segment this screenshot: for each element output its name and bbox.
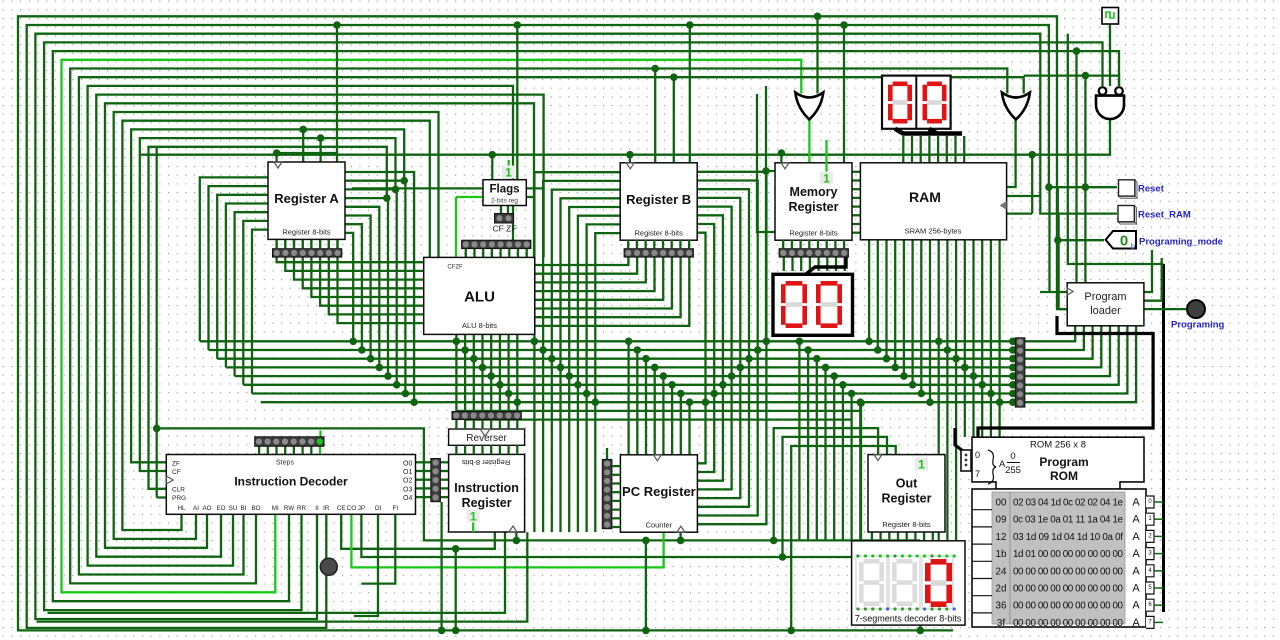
svg-text:Out: Out xyxy=(896,477,918,491)
wire PCstrip-PC 2 xyxy=(612,482,621,484)
svg-text:Counter: Counter xyxy=(646,520,673,529)
svg-text:255: 255 xyxy=(1005,465,1021,476)
ALU box xyxy=(424,257,535,334)
wire FlagsStrip-ALU 2 xyxy=(482,249,484,258)
wire reverser-IR 2 xyxy=(473,445,475,454)
wire loader top a xyxy=(1075,51,1077,283)
wire Out top feed4 xyxy=(791,446,896,630)
bus band 5 xyxy=(243,384,1013,386)
svg-text:00 00 00 00 00 00 00 00 00: 00 00 00 00 00 00 00 00 00 xyxy=(1013,618,1124,629)
wire ALU out 6 xyxy=(507,334,509,394)
bus band 3 xyxy=(226,366,1013,368)
junction regA top a xyxy=(299,126,307,134)
RAM out arrow xyxy=(1000,201,1007,210)
wire RegA left 4 xyxy=(235,212,268,376)
wire Flags out1 xyxy=(526,187,543,189)
wire RAM top 6 xyxy=(954,136,956,163)
wire loader-LED xyxy=(1144,308,1188,310)
wire Out top feed3 xyxy=(783,437,888,557)
wire ALU out 1 xyxy=(464,334,466,350)
wire v1085 xyxy=(1084,76,1086,283)
PC register xyxy=(620,455,697,532)
AND gate U3 inverted inputs xyxy=(1096,87,1124,119)
wire loader in2 xyxy=(1059,308,1068,310)
junction PC clk xyxy=(677,537,685,545)
wire RAM down 7 xyxy=(929,240,931,402)
7-seg display top pair xyxy=(882,76,951,129)
wire RegB left 1 xyxy=(543,181,620,532)
svg-text:O3: O3 xyxy=(403,486,412,493)
junction RegA band 7 xyxy=(349,338,357,346)
wire RegA left 3 xyxy=(226,204,268,368)
wire reg-strip stub xyxy=(275,240,277,249)
wire reg-strip stub xyxy=(644,240,646,249)
OR gate U2 xyxy=(1002,93,1030,120)
wire RAM top 3 xyxy=(928,136,930,163)
svg-text:CF ZF: CF ZF xyxy=(492,224,516,234)
junction dec band 4 xyxy=(830,372,838,380)
junction IRstrip 7 xyxy=(514,398,522,406)
wire PCstrip-PC 3 xyxy=(612,491,621,493)
wire RegA left 5 xyxy=(243,221,268,385)
wire reverser-IR 7 xyxy=(516,445,518,454)
svg-text:A: A xyxy=(1132,531,1140,543)
svg-text:ALU: ALU xyxy=(464,289,495,306)
wire MemReg-disp 6 xyxy=(835,257,837,271)
wire MemReg-disp 1 xyxy=(791,257,793,271)
svg-text:00: 00 xyxy=(996,498,1007,509)
svg-text:A: A xyxy=(1132,600,1140,612)
wire v861 down xyxy=(860,403,862,541)
wire reg-strip stub xyxy=(808,240,810,249)
junction RAM band 13 xyxy=(978,381,986,389)
junction RegA band 1 xyxy=(402,390,410,398)
wire MemReg clk xyxy=(780,153,782,163)
wire RAM down 10 xyxy=(955,240,957,541)
junction dec band 3 xyxy=(822,364,830,372)
junction clk tap x844 xyxy=(840,21,848,29)
wire Out-decoder 5 xyxy=(914,531,916,541)
junction dec band 1 xyxy=(804,346,812,354)
svg-text:1d 01 00 00 00 00 00 00 00: 1d 01 00 00 00 00 00 00 00 xyxy=(1013,549,1124,560)
svg-text:A: A xyxy=(1132,497,1140,509)
wire ID O1 stub xyxy=(416,470,431,472)
wire IRstrip down xyxy=(440,502,442,630)
reverser box xyxy=(449,429,525,445)
connector strip above ALU xyxy=(462,240,531,248)
wire ID O0 to IR xyxy=(440,461,448,463)
wire strip-reverser 4 xyxy=(490,420,492,430)
wire FlagsStrip-ALU 6 xyxy=(517,249,519,258)
svg-text:ROM: ROM xyxy=(1050,469,1078,483)
junction PCr band 3 xyxy=(737,364,745,372)
wire Out-decoder 7 xyxy=(932,531,934,541)
junction RegB band 2 xyxy=(548,355,556,363)
bus band 9 xyxy=(465,418,852,420)
wire Programing_mode net xyxy=(1058,187,1104,240)
wire RAM top 4 xyxy=(937,136,939,163)
svg-text:A: A xyxy=(1132,565,1140,577)
wire reg-strip stub xyxy=(319,240,321,249)
junction RegB band 3 xyxy=(557,364,565,372)
junction dec band 2 xyxy=(813,355,821,363)
svg-text:O1: O1 xyxy=(403,469,412,476)
wire RAM right2 xyxy=(1007,212,1032,214)
wire ID O3 stub xyxy=(416,487,431,489)
svg-text:03 1d 09 1d 04 1d 10 0a 0f: 03 1d 09 1d 04 1d 10 0a 0f xyxy=(1013,532,1123,543)
junction PC band 4 xyxy=(660,372,668,380)
svg-text:09: 09 xyxy=(996,515,1007,526)
junction Out feed3 tap xyxy=(779,553,787,561)
junction clk tap x517 xyxy=(514,21,522,29)
bus ring wire 8 xyxy=(88,86,513,566)
wire Flags probe stub xyxy=(508,160,510,166)
wire IR probe stub xyxy=(472,523,474,533)
junction bottom a xyxy=(642,627,650,635)
wire strip-reverser 7 xyxy=(516,420,518,430)
decoder pin dots xyxy=(856,554,955,610)
wire RAM right1 xyxy=(1007,195,1040,197)
wire reverser-IR 6 xyxy=(507,445,509,454)
bus ring wire 0 xyxy=(18,16,1067,630)
svg-text:Program: Program xyxy=(1039,455,1088,469)
wire ALU out 4 xyxy=(490,334,492,376)
wire RegB-ALU 2 xyxy=(535,257,646,283)
bus band 6 xyxy=(252,392,1013,394)
wire PC clk stub xyxy=(679,532,681,540)
wire RegA-ALU 0 xyxy=(277,240,424,262)
junction dec band 7 xyxy=(857,398,865,406)
wire RegA clk stub xyxy=(277,153,337,162)
wire JP net xyxy=(361,514,920,557)
wire RegB left 2 xyxy=(552,190,620,532)
wire strip-reverser 6 xyxy=(507,420,509,430)
junction ROMstrip 1 xyxy=(1009,346,1017,354)
junction CE 456 xyxy=(452,545,460,553)
wire RegB-ALU 7 xyxy=(535,257,689,326)
bus band 0 xyxy=(200,340,1014,342)
junction regA top b xyxy=(317,134,325,142)
bus band 8 xyxy=(456,410,861,412)
wire strip-reverser 3 xyxy=(481,420,483,430)
wire FlagsStrip-ALU 4 xyxy=(499,249,501,258)
svg-text:RAM: RAM xyxy=(909,189,941,205)
wire v1058 xyxy=(1057,214,1059,310)
svg-text:7-segments decoder 8-bits: 7-segments decoder 8-bits xyxy=(855,614,962,624)
junction PC band 0 xyxy=(625,338,633,346)
wire ALU out 3 xyxy=(481,334,483,367)
wire loader out up2 xyxy=(1144,258,1162,301)
wire reg-strip stub xyxy=(328,240,330,249)
junction v861 xyxy=(857,399,865,407)
wire PCstrip-PC 4 xyxy=(612,500,621,502)
wire ID O2 to IR xyxy=(440,479,448,481)
program ROM header xyxy=(972,437,1144,489)
wire reg-strip stub xyxy=(817,240,819,249)
wire RegA right 3 xyxy=(345,198,389,376)
wire MemReg-RAM 1 xyxy=(853,179,861,181)
wire reverser-IR 4 xyxy=(490,445,492,454)
wire RAM down 2 xyxy=(885,240,887,359)
wire RegA right 1 xyxy=(345,181,406,394)
svg-text:Instruction: Instruction xyxy=(454,481,519,495)
wire reg-strip stub xyxy=(688,240,690,249)
wire RegA left 6 xyxy=(252,230,268,394)
svg-text:0: 0 xyxy=(975,450,980,460)
wire IR deep net xyxy=(48,532,506,613)
junction progmode tap xyxy=(1054,236,1062,244)
wire MemReg left in xyxy=(766,86,775,171)
junction ROMstrip 0 xyxy=(1009,338,1017,346)
wire band-decoder 5 xyxy=(842,385,844,541)
svg-text:PRG: PRG xyxy=(172,495,186,502)
junction PC band 2 xyxy=(642,355,650,363)
program loader box xyxy=(1067,283,1144,326)
wire ALU out 0 xyxy=(455,334,457,341)
wire RAM down 1 xyxy=(877,240,879,350)
junction IRstrip 0 xyxy=(453,338,461,346)
junction bottom b xyxy=(438,627,446,635)
bus ring wire 14 xyxy=(140,138,396,471)
junction dec band 6 xyxy=(848,390,856,398)
black bus loader-ROM xyxy=(978,316,1153,437)
wire clock bus y155 xyxy=(141,119,1110,154)
svg-text:1: 1 xyxy=(505,166,512,180)
wire MemReg-disp 0 xyxy=(783,257,785,271)
wire ID O4 to IR xyxy=(440,496,448,498)
junction MemReg clk xyxy=(778,149,786,157)
junction RegA clk tap xyxy=(333,21,341,29)
wire RAM down 4 xyxy=(903,240,905,376)
black bus ROM addr xyxy=(955,428,963,451)
junction ROMstrip 4 xyxy=(1009,372,1017,380)
wire RegB left 4 xyxy=(569,207,620,532)
svg-text:1: 1 xyxy=(823,172,830,186)
junction v1085 top xyxy=(1082,72,1090,80)
junction RegA band 2 xyxy=(393,381,401,389)
wire RAM top 5 xyxy=(946,136,948,163)
svg-text:00 00 00 00 00 00 00 00 00: 00 00 00 00 00 00 00 00 00 xyxy=(1013,566,1124,577)
7-seg display memory pair xyxy=(773,274,853,335)
wire MemReg-disp 3 xyxy=(809,257,811,271)
svg-text:Register 8-bits: Register 8-bits xyxy=(789,228,838,237)
connector strip PC left xyxy=(602,459,612,528)
wire RegA right 2 xyxy=(345,189,397,384)
wire clk y428-y540 xyxy=(157,428,921,540)
junction RAM band 9 xyxy=(944,346,952,354)
push button Reset_RAM xyxy=(1118,206,1137,225)
wire reg-strip stub xyxy=(310,240,312,249)
wire RegA-ALU 7 xyxy=(338,240,424,323)
wire Out-decoder 2 xyxy=(888,531,890,541)
wire strip-reverser 2 xyxy=(473,420,475,430)
junction bottom c xyxy=(917,627,925,635)
wire MemReg probe stub xyxy=(825,163,827,172)
wire PC top 5 xyxy=(671,385,673,455)
svg-text:Program: Program xyxy=(1084,291,1126,303)
flags register xyxy=(483,180,526,206)
svg-text:12: 12 xyxy=(996,532,1007,543)
wire strip-loader 3 xyxy=(1025,326,1102,367)
junction RAM band 6 xyxy=(918,390,926,398)
wire MemReg-RAM 5 xyxy=(853,214,861,216)
wire decoder down xyxy=(919,541,921,630)
wire PCstrip-PC 0 xyxy=(612,465,621,467)
black bus top 7seg xyxy=(895,129,962,134)
wire reverser-IR 3 xyxy=(481,445,483,454)
svg-text:AI: AI xyxy=(193,505,199,512)
wire PC top 4 xyxy=(662,376,664,455)
wire Out-decoder 0 xyxy=(871,531,873,541)
wire CFZF stub a xyxy=(500,206,502,214)
svg-text:Programing: Programing xyxy=(1171,320,1225,331)
wire RegA-ALU 4 xyxy=(311,240,423,297)
junction clk tap x690 xyxy=(686,21,694,29)
junction PCr band 7 xyxy=(702,398,710,406)
wire Steps pin 6 xyxy=(310,445,312,454)
wire RegB-ALU 0 xyxy=(535,257,628,266)
junction clk Flags xyxy=(489,151,497,159)
svg-text:Register 8-bits: Register 8-bits xyxy=(282,228,331,237)
wire reg-strip stub xyxy=(799,240,801,249)
wire IRstrip feed 1 xyxy=(464,350,466,413)
wire RegA left 1 xyxy=(209,186,269,350)
wire reverser-IR 5 xyxy=(499,445,501,454)
junction IRstrip 6 xyxy=(505,390,513,398)
junction RegA band 3 xyxy=(384,372,392,380)
wire reg-strip stub xyxy=(293,240,295,249)
wire RegA-ALU 5 xyxy=(320,240,424,306)
bus band 2 xyxy=(217,358,1013,360)
black bus A-tabs xyxy=(1162,264,1165,612)
wire RegB top pin b xyxy=(673,77,675,163)
connector strip above Reverser xyxy=(452,412,521,420)
wire RegB-PC right 4 xyxy=(698,207,732,490)
wire Out-decoder 3 xyxy=(897,531,899,541)
junction k14-staircase xyxy=(392,186,400,194)
wire RegB left 7 xyxy=(595,233,620,532)
wire PC top 2 xyxy=(645,359,647,455)
wire CE net xyxy=(341,514,495,549)
probe 1 memory register xyxy=(820,172,833,186)
LED Programing xyxy=(1187,300,1205,318)
wire RegB-PC right 0 xyxy=(698,172,767,524)
svg-text:1: 1 xyxy=(470,510,477,524)
wire MemReg-disp 7 xyxy=(844,257,846,271)
junction clk y428 xyxy=(153,425,161,433)
junction RegA band 6 xyxy=(358,346,366,354)
wire RegB-PC right 1 xyxy=(698,181,758,516)
push button Reset xyxy=(1119,180,1138,199)
wire band-decoder 4 xyxy=(833,376,835,541)
wire FI net xyxy=(361,514,395,583)
svg-text:Register A: Register A xyxy=(274,191,339,206)
wire ID O0 stub xyxy=(416,461,431,463)
connector strip under Memory Register xyxy=(779,249,848,257)
wire FlagsStrip-ALU 7 xyxy=(526,249,528,258)
wire IR deep net 2 xyxy=(37,532,528,621)
wire strip-loader 2 xyxy=(1025,326,1093,359)
junction PCr band 4 xyxy=(728,372,736,380)
bus ring wire 5 xyxy=(62,60,802,593)
svg-text:Programing_mode: Programing_mode xyxy=(1139,237,1223,248)
wire RegA top pin b xyxy=(319,138,321,162)
svg-text:SRAM 256-bytes: SRAM 256-bytes xyxy=(905,227,962,236)
wire ID O1 to IR xyxy=(440,470,448,472)
svg-text:Flags: Flags xyxy=(489,184,519,196)
junction PC band 1 xyxy=(634,346,642,354)
wire RegA top pin a xyxy=(302,129,304,162)
wire RegA-ALU 3 xyxy=(303,240,424,288)
wire reg-strip stub xyxy=(627,240,629,249)
wire RegB-PC right 2 xyxy=(698,189,749,507)
junction RAM band 7 xyxy=(926,398,934,406)
junction RegB band 7 xyxy=(592,398,600,406)
svg-text:00 00 00 00 00 00 00 00 00: 00 00 00 00 00 00 00 00 00 xyxy=(1013,584,1124,595)
wire Flags out2 xyxy=(526,196,534,198)
wire ID O3 to IR xyxy=(440,487,448,489)
junction RegB band 1 xyxy=(539,346,547,354)
wire RegB-PC right 7 xyxy=(698,233,706,464)
svg-text:AO: AO xyxy=(202,505,211,512)
input pin Programing_mode xyxy=(1106,231,1136,251)
wire IR clk stub xyxy=(515,532,517,540)
wire RAM down 9 xyxy=(946,240,948,541)
wire PCstrip feed xyxy=(606,448,608,459)
wire RegA clk tap xyxy=(336,25,338,162)
memory register xyxy=(775,163,852,240)
wire RAM down 0 xyxy=(868,240,870,341)
wire strip-reverser 5 xyxy=(499,420,501,430)
junction RAM band 11 xyxy=(961,364,969,372)
junction k13-staircase xyxy=(400,177,408,185)
svg-text:A: A xyxy=(1132,514,1140,526)
wire strip-loader 1 xyxy=(1025,326,1084,350)
junction IRstrip 3 xyxy=(479,364,487,372)
wire reg-strip stub xyxy=(834,240,836,249)
svg-text:CO: CO xyxy=(347,505,357,512)
wire PC top 6 xyxy=(680,394,682,456)
svg-text:OI: OI xyxy=(375,505,382,512)
junction clk right xyxy=(1028,151,1036,159)
bus ring wire 2 xyxy=(35,34,1117,619)
bus ring wire 9 xyxy=(96,95,543,557)
svg-text:Register 8-bits: Register 8-bits xyxy=(462,458,511,467)
junction clk 646 xyxy=(642,537,650,545)
wire RegA right 5 xyxy=(345,216,371,359)
bus ring wire 4 xyxy=(53,51,1119,601)
wire OR2-AND link xyxy=(1024,76,1119,86)
OR gate U1 xyxy=(795,92,823,119)
wire Out-decoder 6 xyxy=(923,531,925,541)
wire band-decoder 2 xyxy=(816,359,818,541)
wire RAM top 2 xyxy=(920,136,922,163)
svg-text:RW: RW xyxy=(284,505,294,512)
svg-text:EO: EO xyxy=(216,505,225,512)
junction RAM band 3 xyxy=(891,364,899,372)
wire MemReg-RAM 7 xyxy=(853,232,861,234)
svg-text:CLR: CLR xyxy=(172,486,185,493)
wire RegB-ALU 1 xyxy=(535,257,637,274)
clock component xyxy=(1102,8,1119,25)
wire FlagsStrip-ALU 3 xyxy=(491,249,493,258)
wire RegB left 0 xyxy=(534,172,620,532)
connector strip ID-IR xyxy=(431,459,441,502)
svg-text:O4: O4 xyxy=(403,495,412,502)
svg-text:A: A xyxy=(1132,548,1140,560)
probe 1 instruction register xyxy=(467,510,480,524)
probe 1 out register xyxy=(915,458,928,472)
